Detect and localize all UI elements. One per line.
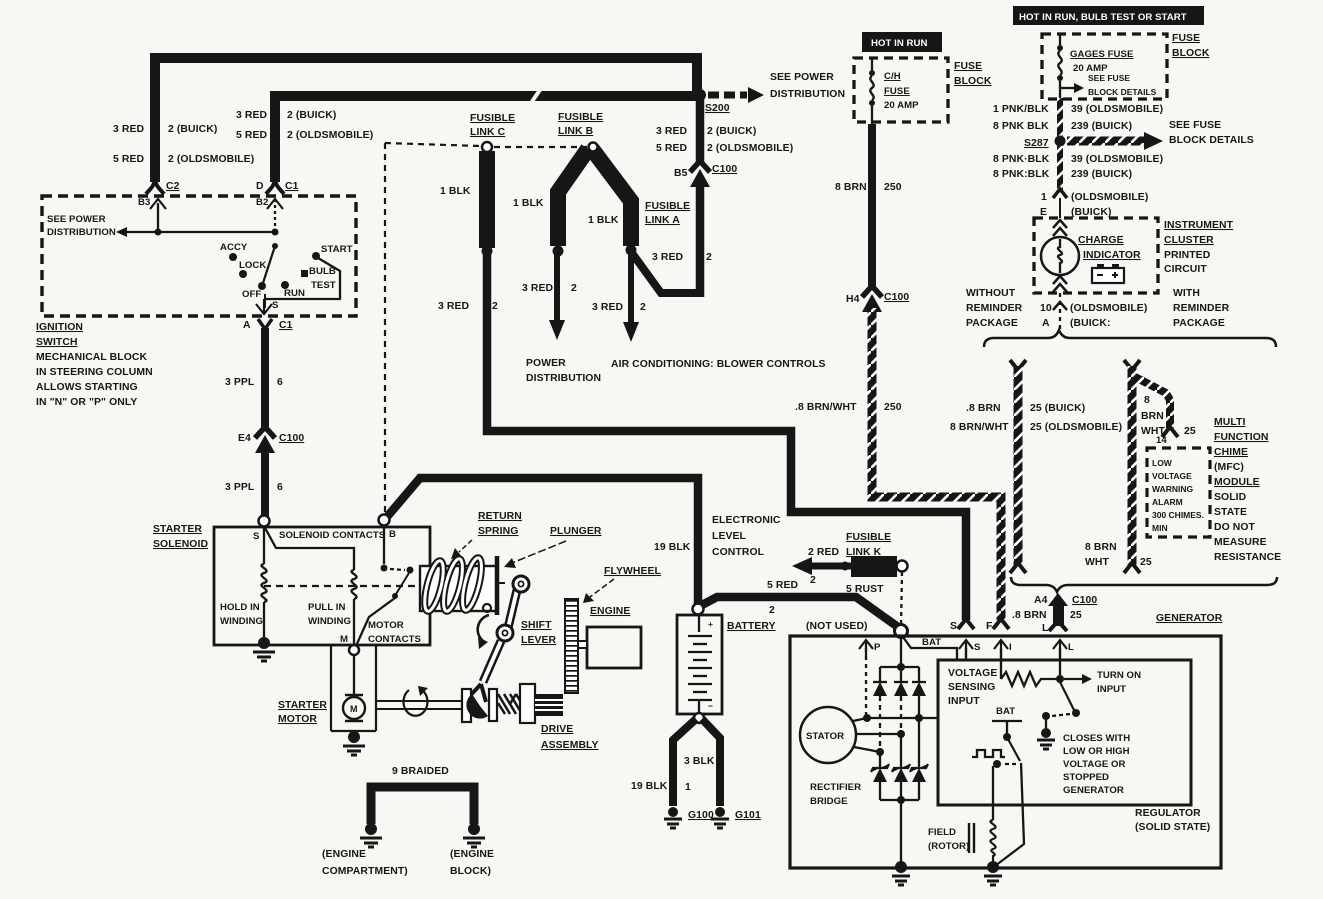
- svg-text:8 BRN/WHT: 8 BRN/WHT: [950, 422, 1009, 433]
- svg-text:WITH: WITH: [1173, 288, 1200, 299]
- black banner HOT IN RUN, BULB TEST OR START: [1013, 6, 1204, 25]
- svg-text:LOCK: LOCK: [239, 260, 266, 271]
- wire: P dashed lead: [865, 648, 867, 716]
- contact OFF: [258, 282, 266, 290]
- wire: riser to B3: [157, 203, 159, 232]
- MFC module dashed box: [1147, 448, 1210, 537]
- svg-text:25: 25: [1184, 426, 1196, 437]
- regulator box: [938, 660, 1191, 805]
- starter solenoid housing: [214, 527, 430, 645]
- connector H4 C100: [862, 286, 882, 297]
- wire: C100 B5 down to link A branch: [696, 181, 705, 297]
- svg-text:ASSEMBLY: ASSEMBLY: [541, 740, 599, 751]
- svg-text:WINDING: WINDING: [308, 616, 351, 627]
- flywheel ring gear: [565, 599, 578, 693]
- svg-text:3 RED: 3 RED: [236, 110, 267, 121]
- resistor (turn on input): [1001, 672, 1057, 686]
- svg-text:SEE POWER: SEE POWER: [47, 214, 106, 225]
- battery icon in cluster: [1097, 264, 1104, 269]
- svg-text:PRINTED: PRINTED: [1164, 250, 1211, 261]
- return spring coils: [421, 556, 485, 613]
- svg-text:19 BLK: 19 BLK: [631, 781, 668, 792]
- svg-text:39 (OLDSMOBILE): 39 (OLDSMOBILE): [1071, 104, 1163, 115]
- svg-text:S: S: [974, 642, 981, 653]
- contact ACCY: [229, 253, 237, 261]
- svg-text:5 RED: 5 RED: [236, 130, 267, 141]
- wire: dashed riser to B2: [274, 201, 276, 232]
- node S287: [1055, 136, 1066, 147]
- svg-text:S: S: [950, 621, 957, 632]
- zener diode bottom row: [871, 764, 928, 772]
- motor contacts: [383, 526, 385, 564]
- svg-text:LINK C: LINK C: [470, 127, 506, 138]
- svg-text:INPUT: INPUT: [948, 696, 980, 707]
- svg-text:STOPPED: STOPPED: [1063, 772, 1109, 783]
- svg-text:B5: B5: [674, 168, 688, 179]
- svg-text:C100: C100: [884, 292, 909, 303]
- brace: top (without/with reminder package): [984, 330, 1276, 347]
- svg-text:RETURN: RETURN: [478, 511, 522, 522]
- svg-text:ENGINE: ENGINE: [590, 606, 630, 617]
- svg-text:6: 6: [277, 377, 283, 388]
- svg-text:A: A: [1042, 318, 1050, 329]
- svg-text:HOT IN RUN, BULB TEST OR START: HOT IN RUN, BULB TEST OR START: [1019, 12, 1187, 23]
- svg-text:3 PPL: 3 PPL: [225, 482, 255, 493]
- drive assembly: [462, 689, 471, 722]
- svg-text:FUSIBLE: FUSIBLE: [645, 201, 690, 212]
- wire: solenoid B to battery positive: [386, 478, 698, 604]
- square wave symbol: [972, 750, 1005, 757]
- fuse block dashed box (gages fuse): [1042, 34, 1167, 99]
- svg-text:PACKAGE: PACKAGE: [966, 318, 1018, 329]
- svg-text:5 RED: 5 RED: [767, 580, 798, 591]
- field rotor coil: [990, 820, 995, 864]
- connector C1 terminal A below switch: [258, 319, 272, 329]
- wire: S output arrow inside switch: [264, 294, 266, 308]
- svg-text:SENSING: SENSING: [948, 682, 995, 693]
- svg-text:IGNITION: IGNITION: [36, 322, 83, 333]
- svg-text:39 (OLDSMOBILE): 39 (OLDSMOBILE): [1071, 154, 1163, 165]
- svg-text:.8 BRN: .8 BRN: [1012, 610, 1047, 621]
- svg-text:BRN: BRN: [1141, 411, 1164, 422]
- svg-text:C1: C1: [285, 181, 299, 192]
- svg-text:INDICATOR: INDICATOR: [1083, 250, 1141, 261]
- svg-text:DRIVE: DRIVE: [541, 724, 573, 735]
- svg-text:ALLOWS STARTING: ALLOWS STARTING: [36, 382, 138, 393]
- connector B5 C100: [690, 161, 710, 172]
- svg-text:INPUT: INPUT: [1097, 684, 1126, 695]
- wire: L lead: [1059, 648, 1061, 675]
- svg-text:E4: E4: [238, 433, 251, 444]
- svg-text:S287: S287: [1024, 138, 1049, 149]
- svg-text:SEE POWER: SEE POWER: [770, 72, 834, 83]
- svg-text:3 RED: 3 RED: [656, 126, 687, 137]
- wire: field drive leads: [992, 766, 994, 820]
- stator: [800, 707, 856, 763]
- wire: 8 BRN/WHT hatched (right, between braces): [1124, 360, 1140, 370]
- svg-text:25 (OLDSMOBILE): 25 (OLDSMOBILE): [1030, 422, 1122, 433]
- svg-text:STATOR: STATOR: [806, 731, 844, 742]
- svg-text:S: S: [253, 531, 260, 542]
- connector flare at generator S: [958, 619, 974, 629]
- svg-text:25 (BUICK): 25 (BUICK): [1030, 403, 1085, 414]
- svg-text:ACCY: ACCY: [220, 242, 248, 253]
- connector A4 C100 to generator L: [1048, 593, 1068, 606]
- svg-text:3 RED: 3 RED: [522, 283, 553, 294]
- svg-text:WITHOUT: WITHOUT: [966, 288, 1016, 299]
- svg-text:3 RED: 3 RED: [438, 301, 469, 312]
- C/H fuse element: [871, 58, 873, 70]
- svg-text:LEVER: LEVER: [521, 635, 557, 646]
- fusible link A body (right leg of tent): [592, 149, 631, 246]
- svg-text:(BUICK:: (BUICK:: [1070, 318, 1111, 329]
- svg-text:2 (OLDSMOBILE): 2 (OLDSMOBILE): [168, 154, 254, 165]
- fuse block dashed box (C/H fuse): [854, 58, 948, 122]
- wire: 8 BRN 250 fuse to H4 C100: [868, 124, 876, 288]
- svg-text:(BUICK): (BUICK): [1071, 207, 1112, 218]
- svg-text:20 AMP: 20 AMP: [884, 100, 919, 111]
- terminal arrow S: [959, 640, 973, 658]
- wire: link A branch to S200 column: [632, 253, 699, 293]
- svg-text:GENERATOR: GENERATOR: [1063, 785, 1124, 796]
- generator housing: [790, 636, 1221, 868]
- svg-text:FUSE: FUSE: [1172, 33, 1200, 44]
- svg-text:C2: C2: [166, 181, 180, 192]
- battery: [693, 604, 704, 615]
- svg-text:9 BRAIDED: 9 BRAIDED: [392, 766, 449, 777]
- fusible link K: [851, 556, 897, 577]
- wire: pnk/blk fuse output hatched: [1057, 98, 1063, 136]
- wire: link B to power distribution (arrow): [554, 253, 560, 322]
- terminal B of solenoid: [379, 515, 390, 526]
- wire: .8 BRN/WHT 250 hatched to generator F: [872, 308, 1001, 620]
- wire: C100 to starter solenoid S (3 PPL): [261, 446, 269, 518]
- svg-text:FUSE: FUSE: [954, 61, 982, 72]
- svg-text:DISTRIBUTION: DISTRIBUTION: [47, 227, 116, 238]
- wire: internal bus with left arrow: [126, 231, 276, 233]
- svg-text:CONTACTS: CONTACTS: [368, 634, 422, 645]
- svg-text:C100: C100: [712, 164, 737, 175]
- svg-text:SPRING: SPRING: [478, 526, 518, 537]
- svg-text:AIR CONDITIONING: BLOWER CONTR: AIR CONDITIONING: BLOWER CONTROLS: [611, 359, 826, 370]
- svg-text:239 (BUICK): 239 (BUICK): [1071, 169, 1132, 180]
- svg-text:VOLTAGE: VOLTAGE: [948, 668, 997, 679]
- svg-text:L: L: [1042, 623, 1049, 634]
- svg-text:BRIDGE: BRIDGE: [810, 796, 848, 807]
- svg-text:CIRCUIT: CIRCUIT: [1164, 264, 1207, 275]
- starter motor housing: [331, 645, 376, 731]
- svg-text:LINK B: LINK B: [558, 126, 594, 137]
- wire: ignition S to C100 (3 PPL): [261, 328, 269, 428]
- node S200 junction dot: [694, 89, 706, 101]
- svg-text:3 RED: 3 RED: [652, 252, 683, 263]
- svg-text:WARNING: WARNING: [1152, 484, 1193, 494]
- svg-text:BLOCK): BLOCK): [450, 866, 491, 877]
- svg-text:5 RED: 5 RED: [113, 154, 144, 165]
- mechanical dashed link plunger: [264, 585, 420, 587]
- wire: S to windings: [264, 526, 354, 570]
- svg-text:.8 BRN: .8 BRN: [966, 403, 1001, 414]
- svg-text:25: 25: [1140, 557, 1152, 568]
- fusible link B body (left leg of tent): [558, 149, 588, 246]
- svg-text:B2: B2: [256, 197, 268, 208]
- svg-text:I: I: [1009, 642, 1012, 653]
- svg-text:MIN: MIN: [1152, 523, 1168, 533]
- connector into instrument cluster: [1053, 189, 1067, 198]
- svg-text:8 PNK BLK: 8 PNK BLK: [993, 121, 1049, 132]
- svg-text:SOLENOID: SOLENOID: [153, 539, 208, 550]
- svg-text:MECHANICAL BLOCK: MECHANICAL BLOCK: [36, 352, 147, 363]
- svg-text:SOLID: SOLID: [1214, 492, 1247, 503]
- wire: S287 down hatched: [1057, 146, 1063, 190]
- svg-text:WINDING: WINDING: [220, 616, 263, 627]
- svg-text:PACKAGE: PACKAGE: [1173, 318, 1225, 329]
- wire: BAT to bridge bus: [900, 637, 902, 667]
- svg-text:10: 10: [1040, 303, 1052, 314]
- svg-text:STATE: STATE: [1214, 507, 1247, 518]
- brace: bottom (generator inputs): [1011, 577, 1277, 592]
- svg-text:1: 1: [685, 782, 691, 793]
- svg-text:REMINDER: REMINDER: [1173, 303, 1230, 314]
- terminal arrow I: [994, 640, 1008, 658]
- svg-text:A4: A4: [1034, 595, 1048, 606]
- wire: branch to MFC module hatched: [1133, 376, 1170, 428]
- svg-text:FUSIBLE: FUSIBLE: [558, 112, 603, 123]
- ground: engine compartment: [365, 823, 377, 835]
- svg-text:FUSIBLE: FUSIBLE: [470, 113, 515, 124]
- svg-text:IN STEERING COLUMN: IN STEERING COLUMN: [36, 367, 153, 378]
- svg-text:C/H: C/H: [884, 71, 901, 82]
- svg-text:A: A: [243, 320, 251, 331]
- svg-text:B3: B3: [138, 197, 150, 208]
- wire: dashed net link C to link B apex: [494, 146, 587, 148]
- wire: charging sense 3 RED from link C to generator S terminal: [487, 253, 966, 620]
- svg-text:MOTOR: MOTOR: [368, 620, 404, 631]
- wire break slash on C1 feed: [531, 87, 542, 103]
- svg-text:2 (BUICK): 2 (BUICK): [707, 126, 756, 137]
- svg-text:DISTRIBUTION: DISTRIBUTION: [770, 89, 845, 100]
- svg-text:1 BLK: 1 BLK: [440, 186, 471, 197]
- svg-text:D: D: [256, 181, 264, 192]
- svg-text:C1: C1: [279, 320, 293, 331]
- svg-text:(ROTOR): (ROTOR): [928, 841, 969, 852]
- svg-text:CHIME: CHIME: [1214, 447, 1248, 458]
- gages fuse element: [1059, 34, 1061, 45]
- svg-text:1: 1: [1041, 192, 1047, 203]
- wire: .8 BRN hatched (left, between braces): [1010, 360, 1026, 370]
- svg-text:25: 25: [1070, 610, 1082, 621]
- wire: battery feed to ignition C2 (thick): [155, 58, 697, 182]
- svg-text:LEVEL: LEVEL: [712, 531, 747, 542]
- ground at bridge: [895, 861, 907, 873]
- connector E4 C100: [255, 427, 275, 438]
- wire: dashed battery net horizontal to link C: [385, 143, 480, 146]
- starter motor: [343, 697, 365, 719]
- svg-text:REMINDER: REMINDER: [966, 303, 1023, 314]
- svg-text:300 CHIMES.: 300 CHIMES.: [1152, 510, 1204, 520]
- svg-text:2 (OLDSMOBILE): 2 (OLDSMOBILE): [707, 143, 793, 154]
- svg-text:CLOSES WITH: CLOSES WITH: [1063, 733, 1130, 744]
- svg-text:(SOLID STATE): (SOLID STATE): [1135, 822, 1210, 833]
- ground: engine block: [468, 823, 480, 835]
- svg-text:CHARGE: CHARGE: [1078, 235, 1124, 246]
- svg-text:14: 14: [1156, 435, 1167, 446]
- svg-text:8 BRN: 8 BRN: [1085, 542, 1117, 553]
- svg-text:239 (BUICK): 239 (BUICK): [1071, 121, 1132, 132]
- svg-text:PLUNGER: PLUNGER: [550, 526, 602, 537]
- svg-text:(ENGINE: (ENGINE: [322, 849, 366, 860]
- svg-text:8 PNK·BLK: 8 PNK·BLK: [993, 154, 1050, 165]
- svg-text:3 RED: 3 RED: [592, 302, 623, 313]
- svg-text:VOLTAGE: VOLTAGE: [1152, 471, 1192, 481]
- wire: I lead to resistor: [1000, 648, 1002, 679]
- svg-text:250: 250: [884, 402, 902, 413]
- rotation arrow: [403, 690, 427, 716]
- wire: battery negative to grounds: [694, 713, 704, 723]
- svg-text:MULTI: MULTI: [1214, 417, 1245, 428]
- wire: start contact path: [264, 258, 340, 299]
- svg-text:COMPARTMENT): COMPARTMENT): [322, 866, 408, 877]
- svg-text:FUNCTION: FUNCTION: [1214, 432, 1268, 443]
- wire: S200 down to C100 B5: [696, 95, 705, 164]
- svg-text:BULB: BULB: [309, 266, 336, 277]
- svg-text:CONTROL: CONTROL: [712, 547, 765, 558]
- svg-text:TEST: TEST: [311, 280, 336, 291]
- svg-text:RECTIFIER: RECTIFIER: [810, 782, 861, 793]
- svg-text:IN "N" OR "P" ONLY: IN "N" OR "P" ONLY: [36, 397, 137, 408]
- ground G100: [668, 807, 678, 817]
- connector C2 flare and arrow into ignition switch: [146, 178, 164, 194]
- svg-text:HOLD IN: HOLD IN: [220, 602, 260, 613]
- wire: dashed battery net vertical to solenoid B: [384, 143, 386, 512]
- svg-text:5 RED: 5 RED: [656, 143, 687, 154]
- svg-text:LINK A: LINK A: [645, 215, 680, 226]
- svg-text:FUSE: FUSE: [884, 86, 910, 97]
- svg-text:S200: S200: [705, 103, 730, 114]
- wire: link A to A/C blower (arrow): [628, 253, 634, 324]
- motor shaft: [376, 700, 462, 702]
- node BAT junction: [895, 625, 908, 638]
- svg-text:250: 250: [884, 182, 902, 193]
- terminal arrow L: [1053, 640, 1067, 658]
- connector C1 flare and arrow into ignition switch: [266, 178, 284, 194]
- terminal arrow P: [859, 640, 873, 658]
- svg-text:8 BRN: 8 BRN: [835, 182, 867, 193]
- svg-text:2 RED: 2 RED: [808, 547, 839, 558]
- svg-text:INSTRUMENT: INSTRUMENT: [1164, 220, 1234, 231]
- svg-text:POWER: POWER: [526, 358, 566, 369]
- svg-text:LOW OR HIGH: LOW OR HIGH: [1063, 746, 1130, 757]
- svg-text:(NOT USED): (NOT USED): [806, 621, 868, 632]
- svg-text:BATTERY: BATTERY: [727, 621, 776, 632]
- svg-text:F: F: [986, 621, 992, 632]
- ignition switch dashed housing: [42, 196, 356, 316]
- svg-text:CLUSTER: CLUSTER: [1164, 235, 1214, 246]
- svg-text:2: 2: [810, 575, 816, 586]
- svg-text:MEASURE: MEASURE: [1214, 537, 1267, 548]
- svg-text:RUN: RUN: [284, 288, 305, 299]
- svg-text:(OLDSMOBILE): (OLDSMOBILE): [1071, 192, 1148, 203]
- contact RUN: [281, 281, 289, 289]
- wire: stator phase 2: [856, 733, 901, 735]
- svg-text:.8 BRN/WHT: .8 BRN/WHT: [795, 402, 857, 413]
- svg-text:(OLDSMOBILE): (OLDSMOBILE): [1070, 303, 1147, 314]
- svg-text:2: 2: [640, 302, 646, 313]
- terminal M: [349, 645, 359, 655]
- svg-text:DO NOT: DO NOT: [1214, 522, 1256, 533]
- svg-text:BLOCK DETAILS: BLOCK DETAILS: [1169, 135, 1254, 146]
- svg-text:2: 2: [769, 605, 775, 616]
- switch: lamp driver: [1060, 682, 1074, 710]
- connector flare at generator F: [993, 619, 1009, 629]
- wire: 2 RED arrow to electronic level control: [810, 563, 851, 570]
- svg-text:SHIFT: SHIFT: [521, 620, 552, 631]
- svg-text:LOW: LOW: [1152, 458, 1173, 468]
- svg-text:2 (BUICK): 2 (BUICK): [287, 110, 336, 121]
- svg-text:C100: C100: [279, 433, 304, 444]
- ignition switch rotary blade: [272, 243, 278, 249]
- ground: hold-in winding: [258, 637, 270, 649]
- svg-text:6: 6: [277, 482, 283, 493]
- svg-text:M: M: [340, 634, 348, 645]
- svg-text:−: −: [708, 701, 713, 711]
- svg-text:H4: H4: [846, 294, 860, 305]
- hold-in winding coil: [261, 564, 266, 602]
- wire: dashed arrow S200 to power distribution: [708, 92, 747, 99]
- svg-text:SEE FUSE: SEE FUSE: [1088, 73, 1130, 83]
- svg-text:2 (BUICK): 2 (BUICK): [168, 124, 217, 135]
- wire: arrow to fuse block details: [1059, 81, 1061, 98]
- wire: BAT thin lead into regulator: [903, 637, 957, 660]
- svg-text:1 BLK: 1 BLK: [513, 198, 544, 209]
- wire: stator phase 3: [854, 747, 880, 752]
- svg-text:2: 2: [571, 283, 577, 294]
- svg-text:19 BLK: 19 BLK: [654, 542, 691, 553]
- svg-text:3 BLK: 3 BLK: [684, 756, 715, 767]
- svg-text:REGULATOR: REGULATOR: [1135, 808, 1201, 819]
- svg-text:G101: G101: [735, 810, 761, 821]
- svg-text:STARTER: STARTER: [153, 524, 202, 535]
- svg-text:BAT: BAT: [996, 706, 1015, 717]
- svg-text:G100: G100: [688, 810, 714, 821]
- svg-text:DISTRIBUTION: DISTRIBUTION: [526, 373, 601, 384]
- svg-text:2: 2: [706, 252, 712, 263]
- svg-text:L: L: [1068, 642, 1074, 653]
- svg-text:8: 8: [1144, 395, 1150, 406]
- fusible link C body: [479, 151, 495, 248]
- svg-text:ELECTRONIC: ELECTRONIC: [712, 515, 781, 526]
- svg-text:BLOCK: BLOCK: [1172, 48, 1210, 59]
- pull-in winding coil: [351, 570, 356, 599]
- wire: battery positive 5 RED to generator BAT: [702, 597, 898, 627]
- svg-text:M: M: [350, 704, 358, 714]
- svg-text:LINK K: LINK K: [846, 547, 882, 558]
- svg-text:GENERATOR: GENERATOR: [1156, 613, 1223, 624]
- contact LOCK: [239, 270, 247, 278]
- svg-text:PULL IN: PULL IN: [308, 602, 346, 613]
- svg-text:SWITCH: SWITCH: [36, 337, 78, 348]
- svg-text:RESISTANCE: RESISTANCE: [1214, 552, 1281, 563]
- wire: S sense lead: [965, 648, 967, 660]
- contact START: [312, 252, 320, 260]
- plunger body: [420, 566, 497, 611]
- svg-text:SEE FUSE: SEE FUSE: [1169, 120, 1221, 131]
- svg-text:OFF: OFF: [242, 289, 261, 300]
- svg-text:8 PNK:BLK: 8 PNK:BLK: [993, 169, 1050, 180]
- svg-text:VOLTAGE OR: VOLTAGE OR: [1063, 759, 1126, 770]
- svg-text:3 PPL: 3 PPL: [225, 377, 255, 388]
- wire: dashed below cluster: [1059, 293, 1061, 330]
